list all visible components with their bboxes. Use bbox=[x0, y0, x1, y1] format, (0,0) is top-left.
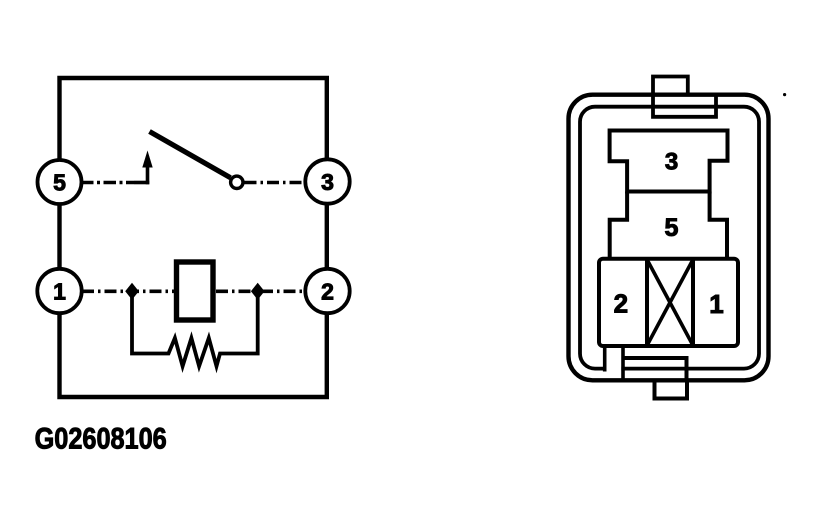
svg-text:3: 3 bbox=[665, 149, 678, 176]
wire: arrow riser bbox=[146, 165, 150, 184]
node junction right (diamond) bbox=[251, 283, 265, 300]
svg-text:3: 3 bbox=[321, 169, 334, 195]
notch below pin 2 right wall bbox=[621, 346, 625, 381]
notch below pin 2 (white gap patch) bbox=[603, 364, 621, 374]
connector housing inner wall bbox=[580, 107, 759, 369]
scan speck bbox=[783, 93, 786, 96]
terminal 2 bbox=[305, 269, 349, 313]
cavity divider left bbox=[645, 259, 649, 346]
resistor (parallel with coil) bbox=[132, 296, 258, 366]
node junction left (diamond) bbox=[125, 283, 139, 300]
pin cavity 5 left side bbox=[610, 192, 627, 259]
wire: dash-dot from terminal 5 to switch arrow bbox=[81, 181, 134, 185]
connector housing outer wall bbox=[569, 95, 769, 381]
svg-text:G02608106: G02608106 bbox=[35, 421, 167, 455]
terminal 5 bbox=[38, 160, 82, 204]
svg-text:5: 5 bbox=[53, 169, 66, 195]
connector top latch block (wide) bbox=[653, 95, 716, 117]
switch blade bbox=[150, 132, 231, 178]
cavity divider right bbox=[691, 259, 695, 346]
pin cavity 5 right side bbox=[710, 192, 727, 259]
svg-text:1: 1 bbox=[53, 278, 66, 304]
keyway X mark bbox=[647, 260, 693, 346]
svg-text:5: 5 bbox=[665, 214, 679, 242]
relay coil bbox=[177, 262, 214, 320]
connector top key tab (small) bbox=[653, 77, 688, 97]
wire: dash-dot terminal 1 to coil bbox=[82, 289, 174, 293]
relay internal schematic box (wire: outline) bbox=[60, 78, 327, 397]
svg-text:2: 2 bbox=[321, 278, 334, 304]
notch below pin 2 left wall bbox=[603, 346, 607, 372]
wire: dash-dot from contact to terminal 3 bbox=[245, 181, 306, 185]
svg-text:1: 1 bbox=[709, 289, 723, 319]
svg-text:2: 2 bbox=[614, 289, 628, 319]
pin cavity row (2 / keyway / 1) bbox=[599, 259, 738, 346]
connector bottom key tab (small) bbox=[655, 381, 688, 399]
connector bottom latch block (wide) bbox=[623, 358, 687, 381]
wire: solid corner stub bbox=[134, 181, 149, 185]
wire: dash-dot coil to terminal 2 bbox=[216, 289, 305, 293]
terminal 1 bbox=[37, 269, 81, 313]
pin cavity 3 bbox=[610, 131, 728, 192]
terminal 3 bbox=[305, 159, 349, 203]
arrowhead bbox=[142, 151, 152, 168]
switch contact circle bbox=[231, 176, 243, 188]
